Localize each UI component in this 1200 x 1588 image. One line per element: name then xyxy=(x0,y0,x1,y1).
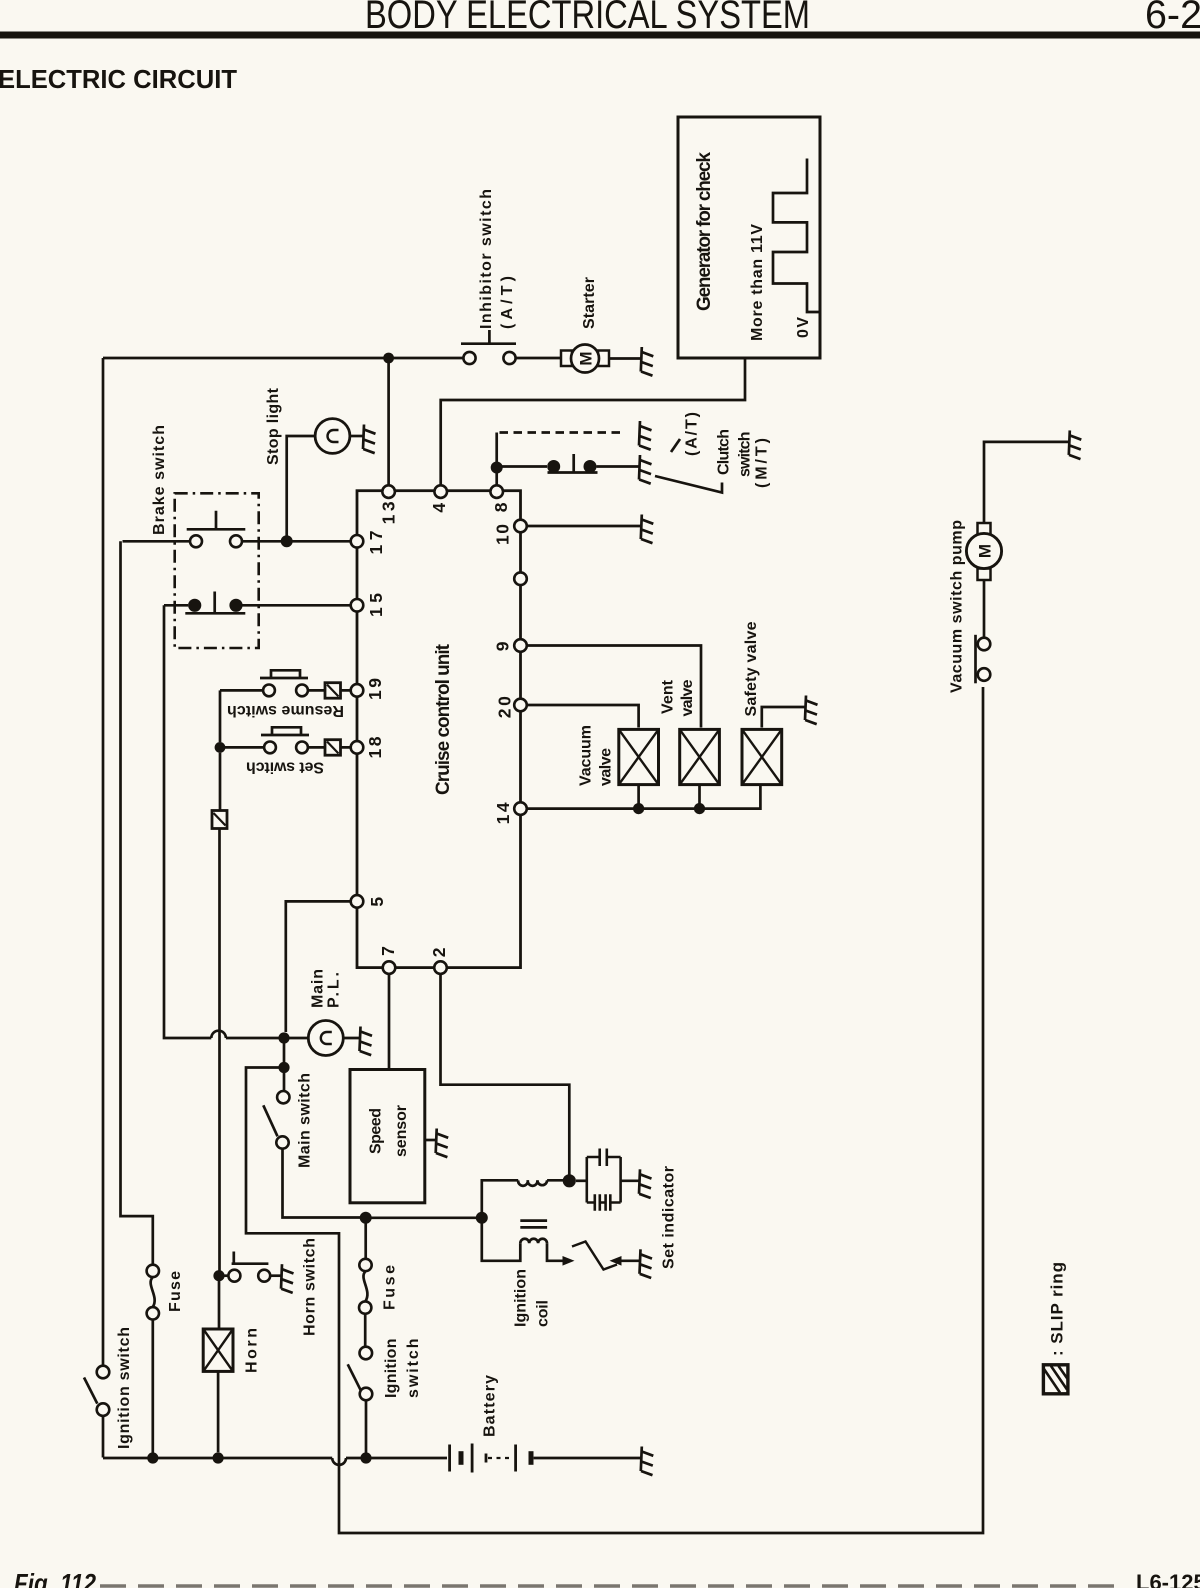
svg-text:19: 19 xyxy=(365,678,385,700)
svg-text:Resume switch: Resume switch xyxy=(227,702,344,719)
svg-text:Battery: Battery xyxy=(481,1375,498,1437)
svg-text:Main: Main xyxy=(309,969,326,1008)
svg-text:9: 9 xyxy=(493,641,513,651)
svg-text:coil: coil xyxy=(534,1300,551,1327)
svg-text:Ignition: Ignition xyxy=(383,1339,400,1399)
svg-text:Starter: Starter xyxy=(581,277,598,329)
svg-text:ELECTRIC CIRCUIT: ELECTRIC CIRCUIT xyxy=(0,64,237,94)
svg-text:15: 15 xyxy=(366,593,386,617)
svg-text:P.L.: P.L. xyxy=(325,972,342,1008)
svg-text:2: 2 xyxy=(429,947,449,957)
svg-text:Vent: Vent xyxy=(659,679,676,714)
svg-text:L6-1258: L6-1258 xyxy=(1136,1570,1200,1588)
svg-text:Horn switch: Horn switch xyxy=(301,1238,318,1336)
svg-text:Ignition: Ignition xyxy=(513,1269,530,1327)
svg-text:Fuse: Fuse xyxy=(381,1265,398,1310)
svg-text:7: 7 xyxy=(378,946,398,956)
svg-text:Generator for check: Generator for check xyxy=(694,152,715,311)
svg-text:valve: valve xyxy=(597,748,614,786)
svg-text:Cruise control unit: Cruise control unit xyxy=(433,643,454,795)
svg-text:(A/T): (A/T) xyxy=(684,412,701,456)
svg-text:Stop light: Stop light xyxy=(265,387,282,465)
svg-text:Vacuum: Vacuum xyxy=(577,725,594,786)
svg-text:13: 13 xyxy=(378,501,398,524)
svg-text:Ignition switch: Ignition switch xyxy=(116,1327,133,1449)
svg-text:M: M xyxy=(976,544,995,558)
svg-text:4: 4 xyxy=(429,503,449,513)
svg-text:Brake switch: Brake switch xyxy=(151,425,168,535)
svg-text:switch: switch xyxy=(405,1339,422,1399)
svg-text:Safety valve: Safety valve xyxy=(743,621,760,716)
svg-text:(A/T): (A/T) xyxy=(499,276,516,329)
svg-text:: SLIP ring: : SLIP ring xyxy=(1048,1262,1067,1356)
svg-text:Set indicator: Set indicator xyxy=(660,1166,677,1269)
svg-text:sensor: sensor xyxy=(393,1105,410,1157)
svg-text:Inhibitor switch: Inhibitor switch xyxy=(478,189,495,329)
svg-text:(M/T): (M/T) xyxy=(754,438,771,488)
svg-text:10: 10 xyxy=(492,524,512,545)
svg-text:Main switch: Main switch xyxy=(296,1073,313,1168)
svg-text:17: 17 xyxy=(366,531,386,555)
svg-text:Horn: Horn xyxy=(243,1328,260,1373)
svg-text:valve: valve xyxy=(679,679,696,716)
svg-text:Fuse: Fuse xyxy=(167,1271,184,1312)
svg-text:Fig. 112: Fig. 112 xyxy=(14,1568,96,1588)
svg-text:switch: switch xyxy=(736,432,753,478)
svg-text:BODY ELECTRICAL SYSTEM: BODY ELECTRICAL SYSTEM xyxy=(365,0,810,37)
svg-text:Set switch: Set switch xyxy=(246,759,324,776)
svg-text:More than 11V: More than 11V xyxy=(749,224,766,341)
svg-text:5: 5 xyxy=(367,897,387,907)
svg-text:0V: 0V xyxy=(795,317,812,338)
svg-text:20: 20 xyxy=(494,696,514,718)
svg-text:18: 18 xyxy=(365,736,385,758)
svg-text:8: 8 xyxy=(491,502,511,512)
svg-text:Speed: Speed xyxy=(368,1108,385,1154)
svg-text:14: 14 xyxy=(493,802,513,824)
svg-text:Clutch: Clutch xyxy=(716,429,733,475)
svg-text:M: M xyxy=(577,351,596,365)
svg-text:6-2: 6-2 xyxy=(1145,0,1200,37)
svg-text:Vacuum switch pump: Vacuum switch pump xyxy=(948,520,965,693)
